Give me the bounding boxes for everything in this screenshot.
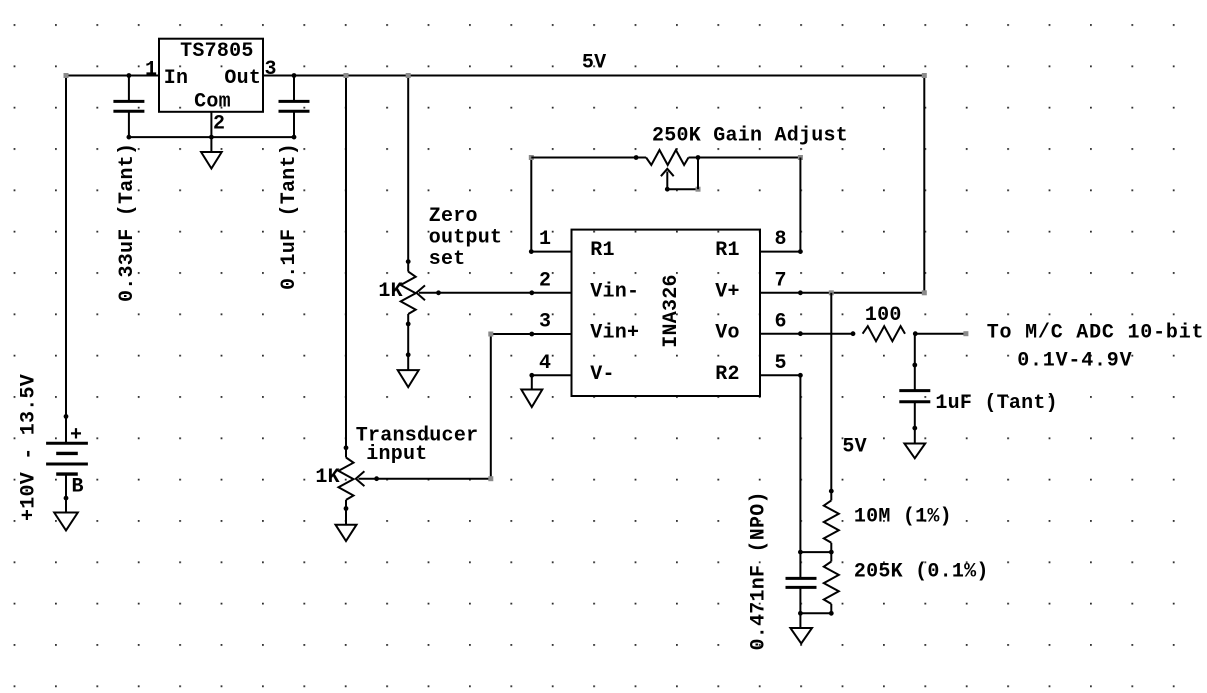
svg-text:1K: 1K [315, 466, 340, 489]
svg-text:4: 4 [539, 352, 551, 375]
svg-text:To M/C ADC 10-bit: To M/C ADC 10-bit [987, 322, 1205, 345]
label 0.1V-4.9V [1017, 350, 1132, 373]
label 10M (1%) [854, 506, 952, 529]
wire to ADC [915, 331, 968, 336]
label Transducer input [356, 425, 479, 466]
wire wiper short [667, 158, 700, 192]
wire wiper to pin3 [374, 332, 571, 482]
label 1K (transducer) [315, 466, 340, 489]
ground (pin4) [521, 390, 542, 408]
label 5V (top rail) [582, 52, 607, 75]
svg-text:R2: R2 [715, 363, 740, 386]
svg-text:5: 5 [775, 352, 787, 375]
svg-text:input: input [366, 443, 427, 466]
svg-text:250K Gain Adjust: 250K Gain Adjust [652, 125, 848, 148]
wire pin2 down [210, 112, 212, 137]
wire divider bottom [798, 611, 834, 616]
wire zero-set to ground [406, 324, 411, 370]
svg-text:0.1uF (Tant): 0.1uF (Tant) [278, 143, 301, 290]
wire caps bottom rail [126, 135, 296, 140]
svg-text:+: + [70, 424, 82, 447]
label 0.1uF (Tant) [278, 143, 301, 290]
label 5V (branch) [842, 436, 867, 459]
label 250K Gain Adjust [652, 125, 848, 148]
svg-text:Vin-: Vin- [590, 280, 639, 303]
svg-text:1: 1 [539, 228, 551, 251]
wire transducer drop [344, 73, 349, 448]
pin 4 label [539, 352, 551, 375]
wire pin7 to 5V [760, 73, 927, 295]
resistor 10M [824, 491, 839, 552]
svg-text:3: 3 [539, 311, 551, 334]
svg-text:0.33uF (Tant): 0.33uF (Tant) [116, 143, 139, 302]
wire divider mid [798, 550, 834, 555]
capacitor C1 0.33uF [113, 73, 144, 137]
svg-text:Out: Out [224, 67, 261, 90]
label 1K (zero set) [378, 280, 403, 303]
label 100 [865, 304, 902, 327]
wire 5V top rail (right of regulator) [263, 75, 924, 77]
wire 250K to pin8 [698, 155, 803, 254]
svg-text:V+: V+ [715, 280, 740, 303]
svg-text:5V: 5V [842, 436, 867, 459]
pin 3 label [539, 311, 551, 334]
svg-text:R1: R1 [715, 239, 740, 262]
svg-text:3: 3 [265, 58, 277, 81]
pin 7 label [775, 269, 787, 292]
svg-text:5V: 5V [582, 52, 607, 75]
ground (1uF) [904, 428, 925, 458]
capacitor 0.471nF NPO [786, 552, 817, 613]
ground (battery) [54, 513, 78, 531]
potentiometer 250K gain adjust [634, 150, 701, 192]
capacitor C4 1uF [899, 334, 930, 431]
svg-text:0.1V-4.9V: 0.1V-4.9V [1017, 350, 1132, 373]
label To M/C ADC 10-bit [987, 322, 1205, 345]
svg-text:10M (1%): 10M (1%) [854, 506, 952, 529]
wire pin5 drop [760, 373, 803, 552]
label 205K (0.1%) [854, 561, 989, 584]
svg-text:Vin+: Vin+ [590, 322, 639, 345]
svg-text:2: 2 [539, 269, 551, 292]
battery B +10V-13.5V [46, 414, 88, 513]
wire wiper to pin2 [436, 290, 571, 295]
pin 2 label (TS7805) [213, 113, 225, 136]
capacitor C2 0.1uF [279, 73, 310, 137]
label 0.33uF (Tant) [116, 143, 139, 302]
label 0.471nF (NPO) [748, 491, 771, 650]
ground (divider) [790, 613, 812, 643]
op-amp U2 INA326 box [572, 230, 761, 396]
pin 6 label [775, 311, 787, 334]
svg-text:Com: Com [194, 91, 231, 114]
potentiometer 1K transducer input [339, 445, 377, 511]
wire battery feed [64, 73, 69, 443]
svg-text:Vo: Vo [715, 322, 740, 345]
label 1uF (Tant) [935, 392, 1058, 415]
svg-text:8: 8 [775, 228, 787, 251]
svg-text:1: 1 [145, 59, 157, 82]
wire zero-set drop [406, 73, 411, 262]
wire 5V branch [829, 290, 834, 493]
wire 5V top rail (left of regulator) [66, 75, 159, 77]
label +10V - 13.5V [18, 374, 41, 521]
svg-text:100: 100 [865, 304, 902, 327]
svg-text:V-: V- [590, 363, 615, 386]
svg-text:INA326: INA326 [660, 274, 683, 348]
wire pin6 out [760, 331, 855, 336]
ground (zero set pot) [398, 370, 419, 387]
ground (transducer pot) [336, 509, 357, 542]
svg-text:1uF (Tant): 1uF (Tant) [935, 392, 1058, 415]
pin 3 label (TS7805) [265, 58, 277, 81]
label Zero output set [429, 205, 503, 271]
pin 5 label [775, 352, 787, 375]
svg-text:output: output [429, 227, 503, 250]
pin 1 label [539, 228, 551, 251]
wire pin4 [529, 373, 571, 390]
svg-text:+10V - 13.5V: +10V - 13.5V [18, 374, 41, 521]
regulator U1 TS7805 box [159, 39, 263, 114]
label INA326 (vertical) [660, 274, 683, 348]
svg-text:R1: R1 [590, 239, 615, 262]
resistor 100 [863, 326, 918, 341]
svg-text:0.471nF (NPO): 0.471nF (NPO) [748, 491, 771, 650]
ground (regulator Com) [201, 137, 222, 168]
svg-text:6: 6 [775, 311, 787, 334]
pin 2 label [539, 269, 551, 292]
svg-text:set: set [429, 248, 466, 271]
svg-text:205K (0.1%): 205K (0.1%) [854, 561, 989, 584]
pin 1 label (TS7805) [145, 59, 157, 82]
resistor 205K [824, 552, 839, 613]
svg-text:TS7805: TS7805 [180, 40, 254, 63]
pin 8 label [775, 228, 787, 251]
svg-text:2: 2 [213, 113, 225, 136]
potentiometer 1K zero output set [401, 259, 439, 326]
wire pin1 loop [529, 155, 636, 254]
svg-text:1K: 1K [378, 280, 403, 303]
svg-text:7: 7 [775, 269, 787, 292]
svg-text:B: B [72, 475, 84, 498]
svg-text:In: In [164, 67, 189, 90]
svg-text:Zero: Zero [429, 205, 478, 228]
